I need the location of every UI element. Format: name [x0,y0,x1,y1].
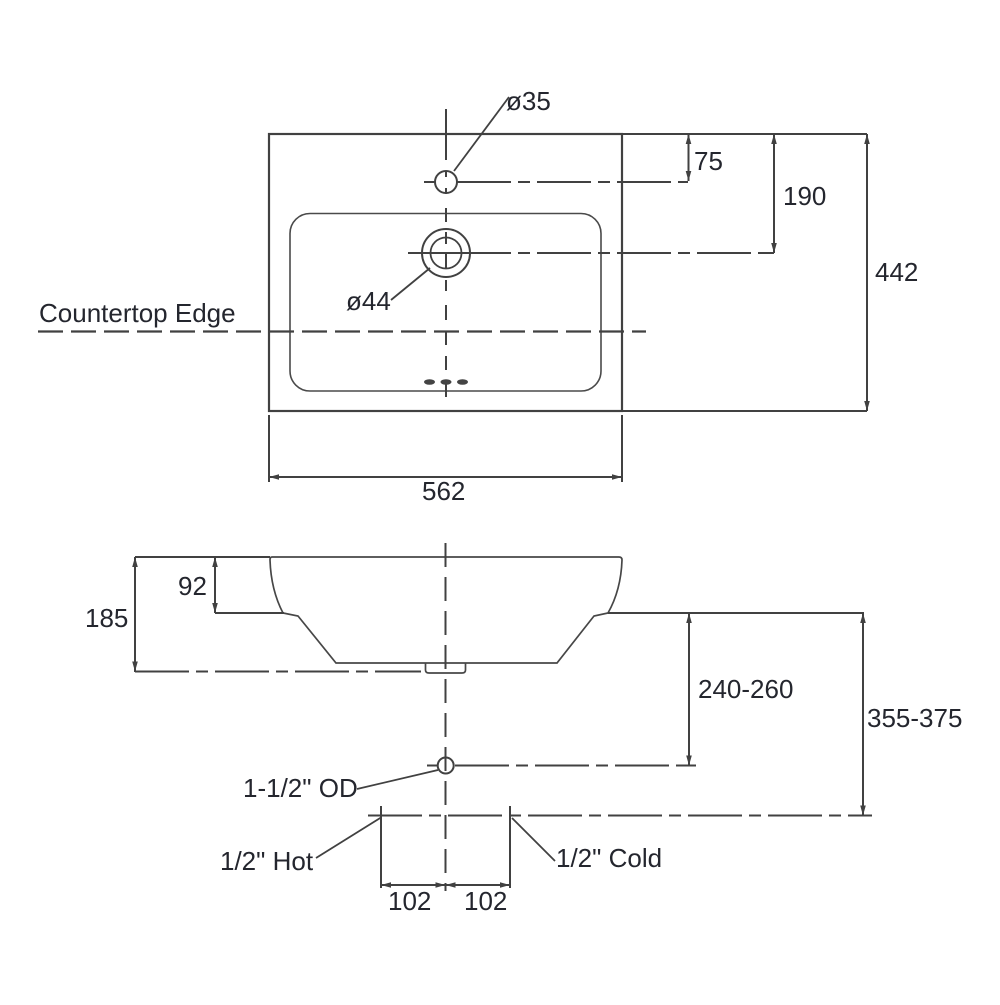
562 arrows [269,474,279,480]
102 center double arrow [436,882,446,888]
supply dash-dot line [368,815,872,817]
92 lower datum line [215,612,284,614]
svg-text:ø35: ø35 [506,86,551,116]
svg-text:102: 102 [388,886,431,916]
185 arrows [132,557,138,567]
75 dimension line [688,134,690,181]
svg-text:Countertop Edge: Countertop Edge [39,298,236,328]
240-260 dimension line [688,613,690,766]
svg-text:190: 190 [783,181,826,211]
svg-text:102: 102 [464,886,507,916]
plan view: inner basin rounded rectangle [290,214,601,392]
faucet horizontal centerline (to 75 dim) [424,181,688,183]
top dimension datum line (y=134 extension to right) [622,133,867,135]
leader line for 1/2 Hot [316,818,381,859]
185/92 top datum line [135,556,270,558]
102 arrows [381,882,391,888]
dimension arrowheads [132,134,870,888]
bottom 442 datum line [622,410,867,412]
svg-text:185: 185 [85,603,128,633]
svg-text:240-260: 240-260 [698,674,793,704]
leader line for ø44 [391,268,430,300]
hot supply extension line [380,806,382,888]
svg-text:562: 562 [422,476,465,506]
442 arrows [864,134,870,144]
drain OD dash-dot line [427,765,696,767]
drain inner circle [431,238,462,269]
75 arrows [686,134,692,144]
vertical centerline through faucet and drain [445,109,447,397]
overflow slots (three dots) [424,379,468,385]
plan view: countertop outer rectangle [269,134,622,411]
svg-text:ø44: ø44 [346,286,391,316]
svg-text:1/2" Hot: 1/2" Hot [220,846,314,876]
102 dimension line [381,884,510,886]
right datum line at rim level [608,612,864,614]
drain outer circle (ø44) [422,229,470,277]
562 dimension extension lines [269,415,622,482]
355-375 dimension line [862,613,864,816]
svg-text:92: 92 [178,571,207,601]
442 dimension line [866,134,868,411]
drain horizontal centerline (to 190 dim) [408,252,774,254]
faucet hole circle (ø35) [435,171,457,193]
svg-text:75: 75 [694,146,723,176]
svg-text:1-1/2" OD: 1-1/2" OD [243,773,358,803]
side view baseline dash-dot [135,671,421,673]
svg-text:442: 442 [875,257,918,287]
leader line for 1-1/2 OD [357,770,438,789]
countertop edge dashed line [38,330,646,332]
185 dimension line [134,557,136,672]
cold supply extension line [509,806,511,888]
92 arrows [212,557,218,567]
leader line for 1/2 Cold [512,818,555,861]
240-260 arrows [686,613,692,623]
355-375 arrows [860,613,866,623]
562 dimension line [269,476,622,478]
side view: sink outline [270,557,622,663]
side view: vertical centerline [445,543,447,891]
svg-text:355-375: 355-375 [867,703,962,733]
side view: drain tab at bottom [426,663,466,673]
svg-text:1/2" Cold: 1/2" Cold [556,843,662,873]
190 dimension line [773,134,775,253]
190 arrows [771,134,777,144]
drain outlet circle (1-1/2 OD) [438,758,454,774]
leader line for ø35 [454,97,509,171]
92 dimension line [214,557,216,613]
